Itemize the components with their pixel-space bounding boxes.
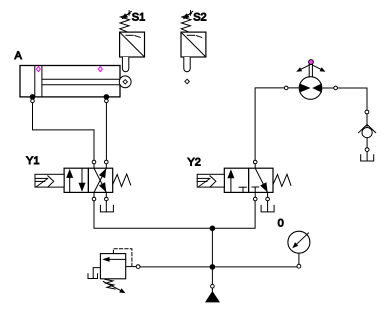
check valve seat: [359, 125, 376, 133]
valve V1 solenoid: [35, 174, 64, 187]
valve V2 left position blocked port: [239, 187, 246, 192]
limit switch S1 plunger stem: [122, 57, 128, 72]
wire: cylinder left port to V1 port 4: [33, 103, 95, 161]
wire: main pressure line: [140, 266, 297, 268]
cylinder A piston rod: [42, 79, 120, 85]
limit switch S2 adjustment arrow: [183, 11, 193, 19]
motor left node circle: [284, 86, 288, 90]
pressure gauge 0 dial: [288, 231, 310, 253]
valve V2 exhaust tank: [261, 201, 274, 212]
air motor M circle: [299, 77, 322, 100]
junction supply rail: [210, 226, 215, 231]
cylinder position marker (magenta) left: [36, 67, 40, 72]
node circle on motor right wire: [334, 86, 338, 90]
air motor shaft: [309, 65, 312, 77]
valve V1 body squares: [64, 168, 113, 192]
valve V2 left position up arrow: [227, 169, 234, 192]
air motor rotation arrow right: [313, 65, 326, 72]
valve V1 return spring: [113, 174, 131, 187]
limit switch S1 body: [120, 32, 145, 57]
relief valve flow arrow: [102, 257, 126, 262]
relief valve inlet node circle: [126, 265, 140, 269]
valve V1 exhaust tank: [100, 201, 113, 212]
node circle above check valve: [365, 110, 369, 114]
relief valve outlet to tank: [88, 268, 100, 279]
svg-text:S2: S2: [193, 12, 206, 24]
svg-text:S1: S1: [132, 12, 145, 24]
junction main pressure line: [210, 265, 215, 270]
air motor rotation arrow left: [296, 65, 309, 72]
svg-text:A: A: [15, 50, 23, 62]
cylinder A rod-end roller: [119, 76, 131, 88]
wire: V2 port 2 up to air motor: [255, 88, 299, 160]
pressure gauge needle: [292, 233, 308, 248]
valve V2 bottom port stubs: [255, 192, 267, 197]
valve V1 top port node circles: [92, 160, 108, 164]
valve V2 top port node circle: [253, 160, 257, 164]
valve V2 bottom port node circles: [253, 197, 269, 201]
pressure gauge node circle: [297, 264, 301, 268]
wire: cylinder right port to V1 port 2: [105, 103, 107, 161]
svg-text:0: 0: [278, 218, 284, 230]
valve V1 bottom port node circles: [92, 197, 108, 201]
air motor flow triangles: [300, 84, 321, 92]
valve V1 right position arrows (crossed): [94, 168, 106, 192]
compressed air supply node circle: [211, 284, 215, 288]
relief valve body: [100, 254, 125, 279]
svg-text:Y1: Y1: [26, 155, 39, 167]
limit switch S2 body: [181, 32, 206, 57]
valve V2 top port stub: [254, 164, 256, 168]
exhaust tank top right: [361, 155, 374, 161]
valve V2 return spring: [273, 174, 291, 186]
valve V2 right position blocked port: [252, 187, 259, 192]
valve V2 solenoid: [197, 174, 224, 187]
relief valve pilot line (dashed): [113, 249, 131, 267]
valve V1 top port stubs: [94, 164, 106, 168]
check valve ball: [362, 128, 372, 138]
valve V2 right position exhaust arrow: [255, 168, 267, 192]
limit switch S1 adjustment arrow: [122, 11, 132, 19]
limit switch S2 spring: [181, 11, 191, 32]
S2 free connection diamond: [185, 79, 190, 84]
limit switch S1 spring: [120, 11, 130, 32]
valve V1 left position arrows (parallel): [66, 168, 85, 192]
relief valve spring: [105, 279, 115, 289]
limit switch S2 plunger stem: [184, 57, 190, 72]
pressure gauge stem: [298, 253, 300, 264]
cylinder port junction dots: [30, 95, 109, 100]
wire: check valve to exhaust tank: [366, 138, 368, 161]
cylinder port node circles: [31, 99, 109, 103]
wire: supply riser: [211, 228, 213, 284]
cylinder A body: [20, 66, 120, 97]
relief valve adjustment arrow: [103, 282, 125, 294]
valve V2 body squares: [224, 168, 273, 192]
compressed air supply triangle: [206, 288, 219, 302]
wire: V1 port 1 to V2 port 1 (supply rail): [94, 201, 255, 229]
svg-text:Y2: Y2: [187, 157, 200, 169]
wire: air motor to check valve: [322, 88, 367, 128]
valve V1 bottom port stubs: [94, 192, 106, 197]
cylinder position marker (magenta) right: [98, 67, 102, 72]
node circle below check valve: [365, 148, 369, 152]
air motor state marker (magenta): [309, 60, 314, 65]
